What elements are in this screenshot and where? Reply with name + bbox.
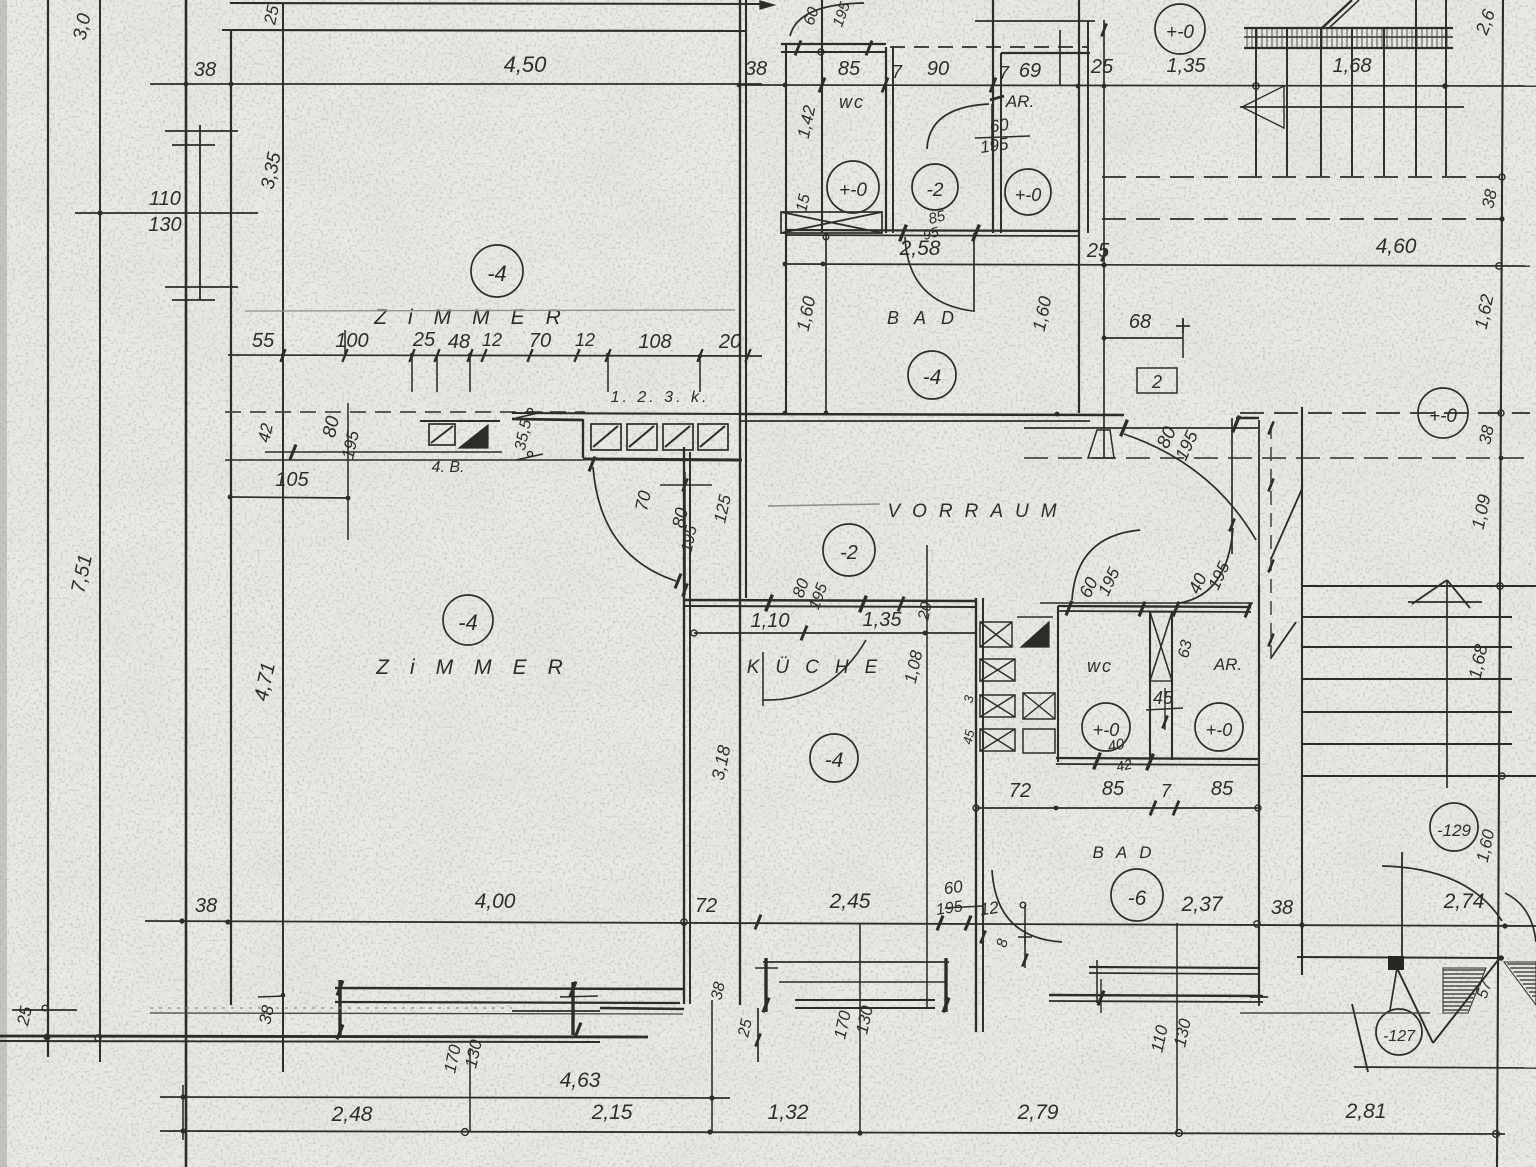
svg-text:38: 38 bbox=[745, 58, 767, 80]
svg-text:2,45: 2,45 bbox=[829, 890, 871, 913]
wall step y1008 bbox=[600, 1008, 684, 1009]
window jamb right bbox=[571, 982, 574, 1035]
wire vert dim x348 bbox=[347, 403, 349, 540]
wall bottom outer band bbox=[0, 1036, 648, 1037]
svg-text:2,37: 2,37 bbox=[1181, 893, 1224, 916]
svg-text:7: 7 bbox=[892, 62, 903, 82]
stair direction arrow top bbox=[1240, 106, 1464, 108]
level circle +-0 stair top bbox=[1155, 4, 1205, 54]
node on left dim line bbox=[97, 210, 102, 215]
svg-text:ZiMMER: ZiMMER bbox=[373, 306, 582, 329]
wire dashed section line mid bbox=[1240, 412, 1530, 414]
svg-text:63: 63 bbox=[1175, 638, 1195, 659]
hatch block left bbox=[1443, 968, 1486, 1013]
level circle -2 upper bbox=[912, 164, 958, 210]
wall bad bottom wall lower band bbox=[1049, 995, 1263, 996]
wall inner west wall face bbox=[230, 29, 232, 1005]
svg-text:1. 2. 3. k.: 1. 2. 3. k. bbox=[611, 389, 710, 406]
wall loggia y957 bbox=[1297, 957, 1504, 958]
door arc kueche door bbox=[763, 640, 866, 700]
window x-box in wall bbox=[781, 212, 882, 233]
stair landing hatch band bbox=[1244, 27, 1453, 29]
svg-text:-2: -2 bbox=[840, 542, 858, 564]
svg-text:85: 85 bbox=[1102, 778, 1125, 800]
wall kueche left wall inner bbox=[689, 452, 691, 1004]
svg-text:ZiMMER: ZiMMER bbox=[375, 656, 584, 679]
svg-text:1,10: 1,10 bbox=[751, 610, 790, 632]
kitchen fixture boxes col bbox=[980, 659, 1015, 681]
svg-text:-4: -4 bbox=[487, 261, 507, 286]
dimension line 110/130 left bbox=[75, 212, 258, 214]
svg-text:-129: -129 bbox=[1437, 821, 1472, 840]
svg-text:85: 85 bbox=[1211, 778, 1234, 800]
tick pair 35,5 bbox=[527, 408, 532, 413]
dimension line 2,58|25|4,60 bbox=[785, 264, 1530, 266]
wire faint line left of vorraum bbox=[768, 504, 880, 506]
svg-text:-4: -4 bbox=[923, 366, 942, 389]
wire right border vertical bbox=[1497, 0, 1503, 1167]
svg-text:108: 108 bbox=[638, 331, 671, 353]
dimension line 105 bbox=[230, 497, 350, 498]
wall zimmer right wall inner bbox=[745, 0, 747, 598]
wall bad door wall pair bbox=[992, 0, 994, 233]
wall kueche top wall bbox=[684, 600, 976, 601]
wire dim vertical x712 bbox=[711, 1000, 713, 1132]
level circle +-0 wc upper bbox=[827, 161, 879, 213]
wall ar top wall bbox=[1001, 52, 1090, 54]
svg-text:130: 130 bbox=[148, 214, 181, 236]
dimension door 80/195 vorraum bbox=[1024, 427, 1258, 429]
window boxes row 1..4 with slashes bbox=[591, 424, 621, 450]
level circle -129 bbox=[1430, 803, 1478, 851]
svg-text:69: 69 bbox=[1019, 60, 1041, 82]
svg-text:2: 2 bbox=[1151, 372, 1162, 392]
svg-text:-6: -6 bbox=[1128, 887, 1147, 910]
tick cross near 42 bbox=[290, 445, 296, 460]
svg-text:VORRAUM: VORRAUM bbox=[887, 501, 1068, 522]
level circle +-0 ar lower bbox=[1195, 703, 1243, 751]
wire dim vertical x283 bottom bbox=[282, 960, 284, 1072]
svg-text:12: 12 bbox=[575, 330, 595, 350]
wire line y1013 right bbox=[1240, 1012, 1430, 1014]
wall window stub left bbox=[512, 419, 583, 420]
wire line 105 extension bbox=[225, 459, 583, 461]
svg-text:2,81: 2,81 bbox=[1345, 1100, 1387, 1123]
wire faint line under zimmer label bbox=[245, 310, 735, 311]
window jamb left bbox=[338, 980, 341, 1035]
wall kueche right wall pair bbox=[975, 598, 977, 1032]
wall window row top line bbox=[512, 413, 742, 414]
svg-text:2,48: 2,48 bbox=[331, 1103, 373, 1126]
wall top wall upper line bbox=[230, 3, 760, 4]
sheet number box 2 bbox=[1137, 368, 1177, 393]
svg-text:48: 48 bbox=[448, 331, 470, 353]
wall vorraum top wall bbox=[740, 414, 1124, 415]
terrace jamb right bbox=[944, 958, 947, 1012]
door arc wc lower bbox=[1072, 530, 1140, 600]
svg-text:+-0: +-0 bbox=[1166, 22, 1194, 43]
wall bad upper top wall bbox=[786, 230, 1079, 231]
stair treads lower flight bbox=[1302, 616, 1512, 618]
door bad lower marks bbox=[1024, 905, 1026, 968]
door leaf bad upper inner bbox=[973, 233, 975, 312]
wire dashed faint y1008 bbox=[150, 1007, 512, 1009]
node dots on vorraum top wall bbox=[783, 411, 788, 416]
door arc bad lower bbox=[992, 870, 1062, 942]
svg-text:72: 72 bbox=[695, 895, 717, 917]
wire dashed open well x1259b bbox=[1270, 425, 1272, 660]
svg-text:4,60: 4,60 bbox=[1376, 235, 1417, 258]
wall stair wall x1302 bbox=[1301, 407, 1303, 975]
svg-text:2,79: 2,79 bbox=[1017, 1101, 1059, 1124]
svg-text:wc: wc bbox=[839, 92, 865, 112]
level circle -2 vorraum bbox=[823, 524, 875, 576]
svg-text:+-0: +-0 bbox=[1206, 720, 1233, 740]
door arc right edge bbox=[1505, 893, 1536, 942]
wall wc lower bottom wall bbox=[1056, 758, 1260, 759]
wire dashed line y458 right bbox=[1024, 457, 1530, 459]
wall kueche left wall outer bbox=[683, 447, 685, 1004]
svg-text:4,50: 4,50 bbox=[504, 52, 548, 77]
kitchen fixture xbox row1 bbox=[980, 622, 1012, 647]
dimension line 1,10 1,35 bbox=[694, 632, 975, 634]
door swing arc zimmer door bbox=[593, 467, 676, 581]
stair break diagonals bbox=[1271, 489, 1302, 559]
svg-text:1,32: 1,32 bbox=[768, 1101, 809, 1124]
wire ar top extension bbox=[975, 20, 1095, 22]
wire dim vertical x860 bbox=[859, 923, 861, 1132]
wire small vert dim bbox=[684, 472, 686, 595]
svg-text:110: 110 bbox=[149, 188, 181, 210]
svg-text:1,35: 1,35 bbox=[1167, 55, 1207, 77]
svg-text:38: 38 bbox=[708, 980, 728, 1001]
svg-text:12: 12 bbox=[979, 898, 1001, 920]
svg-text:BAD: BAD bbox=[1093, 843, 1164, 862]
dimension chain 55|100|25|48|12|70|12|108|20 bbox=[228, 355, 762, 356]
svg-text:100: 100 bbox=[335, 330, 368, 352]
dimension bottom line bbox=[160, 1131, 1505, 1134]
svg-text:-127: -127 bbox=[1383, 1028, 1416, 1045]
level circle -4 kueche bbox=[810, 734, 858, 782]
level circle -4 lower zimmer bbox=[443, 595, 493, 645]
wire dim vertical x1060 bbox=[1059, 30, 1061, 86]
check V lines bbox=[1396, 966, 1433, 1043]
door arc bad upper door bbox=[927, 104, 989, 149]
svg-text:-4: -4 bbox=[825, 749, 844, 772]
svg-text:25: 25 bbox=[412, 329, 436, 351]
level circle +-0 wc lower bbox=[1082, 703, 1130, 751]
dimension line 38|4,50|38 bbox=[150, 83, 762, 85]
svg-text:+-0: +-0 bbox=[839, 180, 867, 201]
svg-text:2,15: 2,15 bbox=[591, 1101, 633, 1124]
svg-text:72: 72 bbox=[1009, 780, 1031, 802]
svg-text:45: 45 bbox=[1153, 688, 1174, 708]
wire dim vertical x826 bad bbox=[825, 233, 827, 415]
svg-text:55: 55 bbox=[252, 330, 275, 352]
svg-text:20: 20 bbox=[718, 331, 741, 353]
svg-text:+-0: +-0 bbox=[1015, 185, 1042, 205]
svg-text:25: 25 bbox=[1090, 56, 1114, 78]
dimension line doors y603 bbox=[1040, 602, 1253, 604]
svg-text:1,35: 1,35 bbox=[863, 609, 903, 631]
window box with slash left bbox=[429, 424, 455, 445]
wire dim vertical x1177 bbox=[1176, 923, 1178, 1133]
dimension line 72|85|7|85 bbox=[976, 807, 1258, 809]
dimension main line y922 bbox=[145, 921, 1536, 926]
wire section dashed line left part bbox=[225, 411, 585, 413]
wire dim vertical x758 bbox=[757, 1008, 759, 1062]
terrace jamb left bbox=[764, 958, 767, 1012]
leader line -127 bbox=[1390, 968, 1397, 1010]
wire left small dim vertical bbox=[199, 125, 201, 300]
svg-text:15: 15 bbox=[793, 192, 813, 213]
dimension 68 bbox=[1104, 337, 1183, 339]
svg-text:85: 85 bbox=[838, 58, 861, 80]
wall zimmer right wall outer bbox=[739, 0, 741, 1005]
svg-text:2,74: 2,74 bbox=[1443, 890, 1485, 913]
hatch block right bbox=[1504, 962, 1536, 1005]
svg-text:4,00: 4,00 bbox=[475, 890, 516, 913]
svg-text:90: 90 bbox=[927, 58, 949, 80]
wire dim vertical x927 bbox=[926, 545, 928, 1009]
wall bad right wall bbox=[1258, 420, 1260, 585]
level circle +-0 stairhall bbox=[1418, 388, 1468, 438]
svg-text:-4: -4 bbox=[458, 610, 478, 635]
svg-text:70: 70 bbox=[631, 489, 655, 513]
stair break diagonal bbox=[1322, 0, 1352, 28]
chimney trapezoid bbox=[1088, 430, 1114, 458]
level circle +-0 bad upper bbox=[1005, 169, 1051, 215]
wall bad bottom wall upper pair bbox=[1089, 967, 1259, 968]
wall wc top wall bbox=[781, 43, 886, 45]
door arc top left entry bbox=[790, 3, 864, 36]
wall window jamb x583 bbox=[582, 419, 584, 458]
wall wc lower left wall bbox=[1057, 606, 1059, 762]
wire dim vertical x183 bbox=[182, 1085, 184, 1140]
window sill lines bottom left bbox=[335, 988, 683, 989]
svg-text:KÜCHE: KÜCHE bbox=[747, 657, 894, 678]
wall outer west wall face bbox=[185, 0, 188, 1167]
shaft walls with x bbox=[1149, 612, 1151, 760]
level circle -127 bbox=[1376, 1009, 1422, 1055]
door arc bad upper inner bbox=[905, 237, 973, 311]
svg-text:7: 7 bbox=[1161, 781, 1172, 801]
svg-text:7: 7 bbox=[999, 63, 1010, 83]
svg-text:38: 38 bbox=[195, 895, 217, 917]
wire dim vertical x470 bbox=[469, 1048, 471, 1132]
wall window row bottom line bbox=[583, 459, 742, 460]
svg-text:68: 68 bbox=[1129, 311, 1151, 333]
wire dim vertical x1232 bbox=[1231, 418, 1233, 554]
wire dashed line y177 bbox=[1102, 176, 1503, 178]
wall ar right wall bbox=[1078, 0, 1080, 413]
wire small line bad door bbox=[945, 906, 983, 908]
svg-text:-2: -2 bbox=[927, 180, 944, 201]
terrace sill lines bbox=[763, 961, 949, 963]
wall wc left wall bbox=[785, 44, 787, 415]
svg-text:AR.: AR. bbox=[1213, 655, 1242, 674]
svg-text:BAD: BAD bbox=[887, 308, 969, 328]
door arc ar lower bbox=[1180, 528, 1233, 603]
room label circle -4 upper zimmer bbox=[471, 245, 523, 297]
svg-text:2,58: 2,58 bbox=[899, 237, 941, 260]
wire dashed corridor line top bbox=[890, 46, 1088, 48]
kitchen solid triangle bbox=[1021, 622, 1049, 647]
dimension line 85|7|90|7|69|25|1,35|1,68 bbox=[739, 85, 1536, 86]
level circle -4 bad upper bbox=[908, 351, 956, 399]
wall top wall lower line bbox=[222, 30, 747, 31]
door arc vorraum entry bbox=[1124, 434, 1256, 540]
svg-text:60: 60 bbox=[989, 115, 1011, 137]
svg-text:60: 60 bbox=[943, 877, 965, 899]
wall wc lower top wall bbox=[1058, 606, 1251, 607]
level circle -6 bbox=[1111, 869, 1163, 921]
wall duct wall x822 bbox=[821, 0, 823, 233]
svg-text:4. B.: 4. B. bbox=[432, 459, 465, 476]
wire outer left border line bbox=[47, 0, 49, 1057]
stair direction arrow lower bbox=[1408, 601, 1482, 603]
dimension line 4,63 bbox=[160, 1097, 730, 1098]
svg-text:4,63: 4,63 bbox=[560, 1069, 601, 1092]
door leaf loggia bbox=[1401, 852, 1403, 967]
wire dashed line y219 bbox=[1102, 218, 1503, 220]
wire left dimension vertical 7,51 bbox=[99, 0, 101, 1062]
filled door post bbox=[1388, 956, 1404, 970]
label 25 rotated left edge bbox=[12, 1009, 77, 1011]
svg-text:38: 38 bbox=[194, 59, 216, 81]
wire dim vertical x1104 bbox=[1103, 20, 1105, 458]
wire line y1067 bbox=[1354, 1067, 1536, 1068]
window solid triangle bbox=[459, 425, 488, 448]
door arc loggia bbox=[1382, 866, 1502, 921]
wall wc right wall pair bbox=[885, 47, 887, 233]
svg-text:12: 12 bbox=[482, 330, 502, 350]
svg-text:105: 105 bbox=[275, 469, 309, 491]
svg-text:38: 38 bbox=[1271, 897, 1293, 919]
svg-text:AR.: AR. bbox=[1005, 92, 1034, 111]
wire dim marks below window row bbox=[589, 457, 595, 472]
svg-text:wc: wc bbox=[1087, 656, 1113, 676]
svg-text:+-0: +-0 bbox=[1429, 406, 1457, 427]
svg-text:70: 70 bbox=[529, 330, 551, 352]
slash mark bbox=[1352, 1004, 1368, 1072]
stair lower top line bbox=[1302, 585, 1536, 587]
stair risers top flight bbox=[1255, 28, 1257, 176]
wire left dim vertical 3,35/4,71 bbox=[282, 3, 284, 1072]
